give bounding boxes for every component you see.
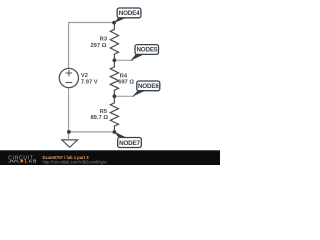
label R5 value [90, 109, 108, 121]
junction dot top (node4) [112, 21, 116, 25]
wire node6 tail [114, 95, 134, 97]
ground [62, 140, 78, 147]
logo waveform [8, 160, 19, 162]
node NODE4 [114, 8, 141, 23]
node NODE6 [132, 81, 160, 97]
wire left bottom and bottom rail [69, 88, 115, 132]
wire ground stub [68, 132, 70, 140]
junction dot node5 [113, 58, 117, 62]
svg-text:LAB: LAB [25, 159, 38, 164]
node NODE5 [130, 45, 158, 61]
svg-text:NODE7: NODE7 [119, 140, 140, 147]
node NODE7 [114, 131, 141, 147]
junction dot node6 [113, 94, 117, 98]
svg-text:89.7 Ω: 89.7 Ω [90, 115, 108, 121]
label R4 value [118, 74, 134, 86]
svg-text:NODE4: NODE4 [119, 10, 140, 17]
junction dot ground [67, 130, 71, 134]
resistor R5 [110, 96, 118, 132]
svg-text:297 Ω: 297 Ω [90, 43, 106, 49]
wire top rail from V2 to R3 [69, 23, 115, 69]
label V2 value [81, 73, 98, 86]
resistor R4 [110, 60, 118, 96]
junction dot node7 [113, 130, 117, 134]
watermark bar [0, 150, 220, 165]
svg-text:697 Ω: 697 Ω [118, 79, 134, 85]
label R3 value [90, 37, 107, 49]
svg-text:NODE5: NODE5 [136, 47, 157, 54]
resistor R3 [110, 23, 118, 61]
logo square [20, 160, 23, 163]
svg-text:http://circuitlab.com/c/jk2zxm: http://circuitlab.com/c/jk2zxmb6gvc [43, 159, 108, 164]
svg-text:R3: R3 [100, 37, 108, 43]
voltage source V2 [59, 68, 78, 87]
svg-text:7.97 V: 7.97 V [81, 80, 98, 86]
svg-text:NODE6: NODE6 [138, 83, 159, 90]
svg-text:V2: V2 [81, 73, 88, 79]
wire node5 tail [114, 59, 133, 61]
